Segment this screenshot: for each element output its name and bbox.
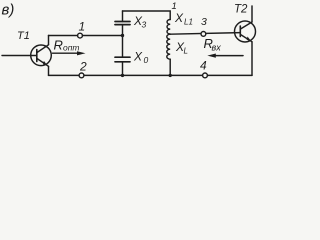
XL1 value label xyxy=(174,11,193,27)
svg-text:0: 0 xyxy=(144,55,149,65)
svg-text:опт: опт xyxy=(63,42,80,52)
wire: coil tap to T2 base (node 3 wire) xyxy=(170,33,240,35)
node 1 xyxy=(78,33,83,38)
wire: T2 collector up xyxy=(251,6,253,22)
svg-text:Т1: Т1 xyxy=(17,30,30,42)
wire: T1 emitter to bottom wire xyxy=(48,66,50,75)
R_in label xyxy=(204,36,222,52)
svg-text:3: 3 xyxy=(142,20,147,30)
capacitor Xo xyxy=(115,36,130,76)
node 2 xyxy=(79,73,84,78)
Xo value label xyxy=(133,50,149,66)
R_opt label xyxy=(54,37,80,52)
X3 value label xyxy=(133,14,147,30)
junction dot: node 1 / X3 / Xo xyxy=(121,34,124,37)
node 4 xyxy=(203,73,208,78)
svg-text:L: L xyxy=(184,46,188,55)
svg-text:1: 1 xyxy=(79,20,86,34)
transistor T2 xyxy=(235,21,256,42)
wire: T2 emitter down to bottom wire xyxy=(251,42,253,76)
XL value label xyxy=(175,40,188,55)
wire: capacitor top to coil top xyxy=(123,11,171,20)
node 3 xyxy=(201,32,206,37)
svg-text:X: X xyxy=(133,50,143,64)
wire: bottom wire from T1 emitter to T2 emitter xyxy=(49,74,253,76)
transistor T1 xyxy=(31,45,52,67)
svg-text:2: 2 xyxy=(79,59,87,73)
wire: top wire from T1 collector to capacitor junction xyxy=(49,35,123,37)
inductor XL1 (top section, 3 turns) xyxy=(167,20,170,34)
svg-text:в): в) xyxy=(2,2,15,19)
junction dot: bottom wire at Xo xyxy=(121,74,124,77)
svg-text:X: X xyxy=(174,11,184,25)
svg-text:вх: вх xyxy=(212,42,222,52)
svg-text:4: 4 xyxy=(200,58,207,72)
svg-text:Т2: Т2 xyxy=(234,3,248,15)
svg-text:3: 3 xyxy=(201,16,207,28)
wire: coil bottom to bottom wire xyxy=(169,59,171,75)
wire: T1 base lead xyxy=(2,55,37,57)
junction dot: bottom wire at coil xyxy=(169,74,172,77)
R_in arrow (pointing left) xyxy=(207,54,243,58)
inductor XL (bottom section, 5 turns) xyxy=(167,34,170,59)
R_opt arrow (pointing right) xyxy=(53,51,86,55)
svg-text:L1: L1 xyxy=(184,18,193,27)
capacitor X3 xyxy=(115,11,130,36)
svg-text:R: R xyxy=(54,37,63,52)
wire: T1 collector to top wire xyxy=(48,36,50,45)
